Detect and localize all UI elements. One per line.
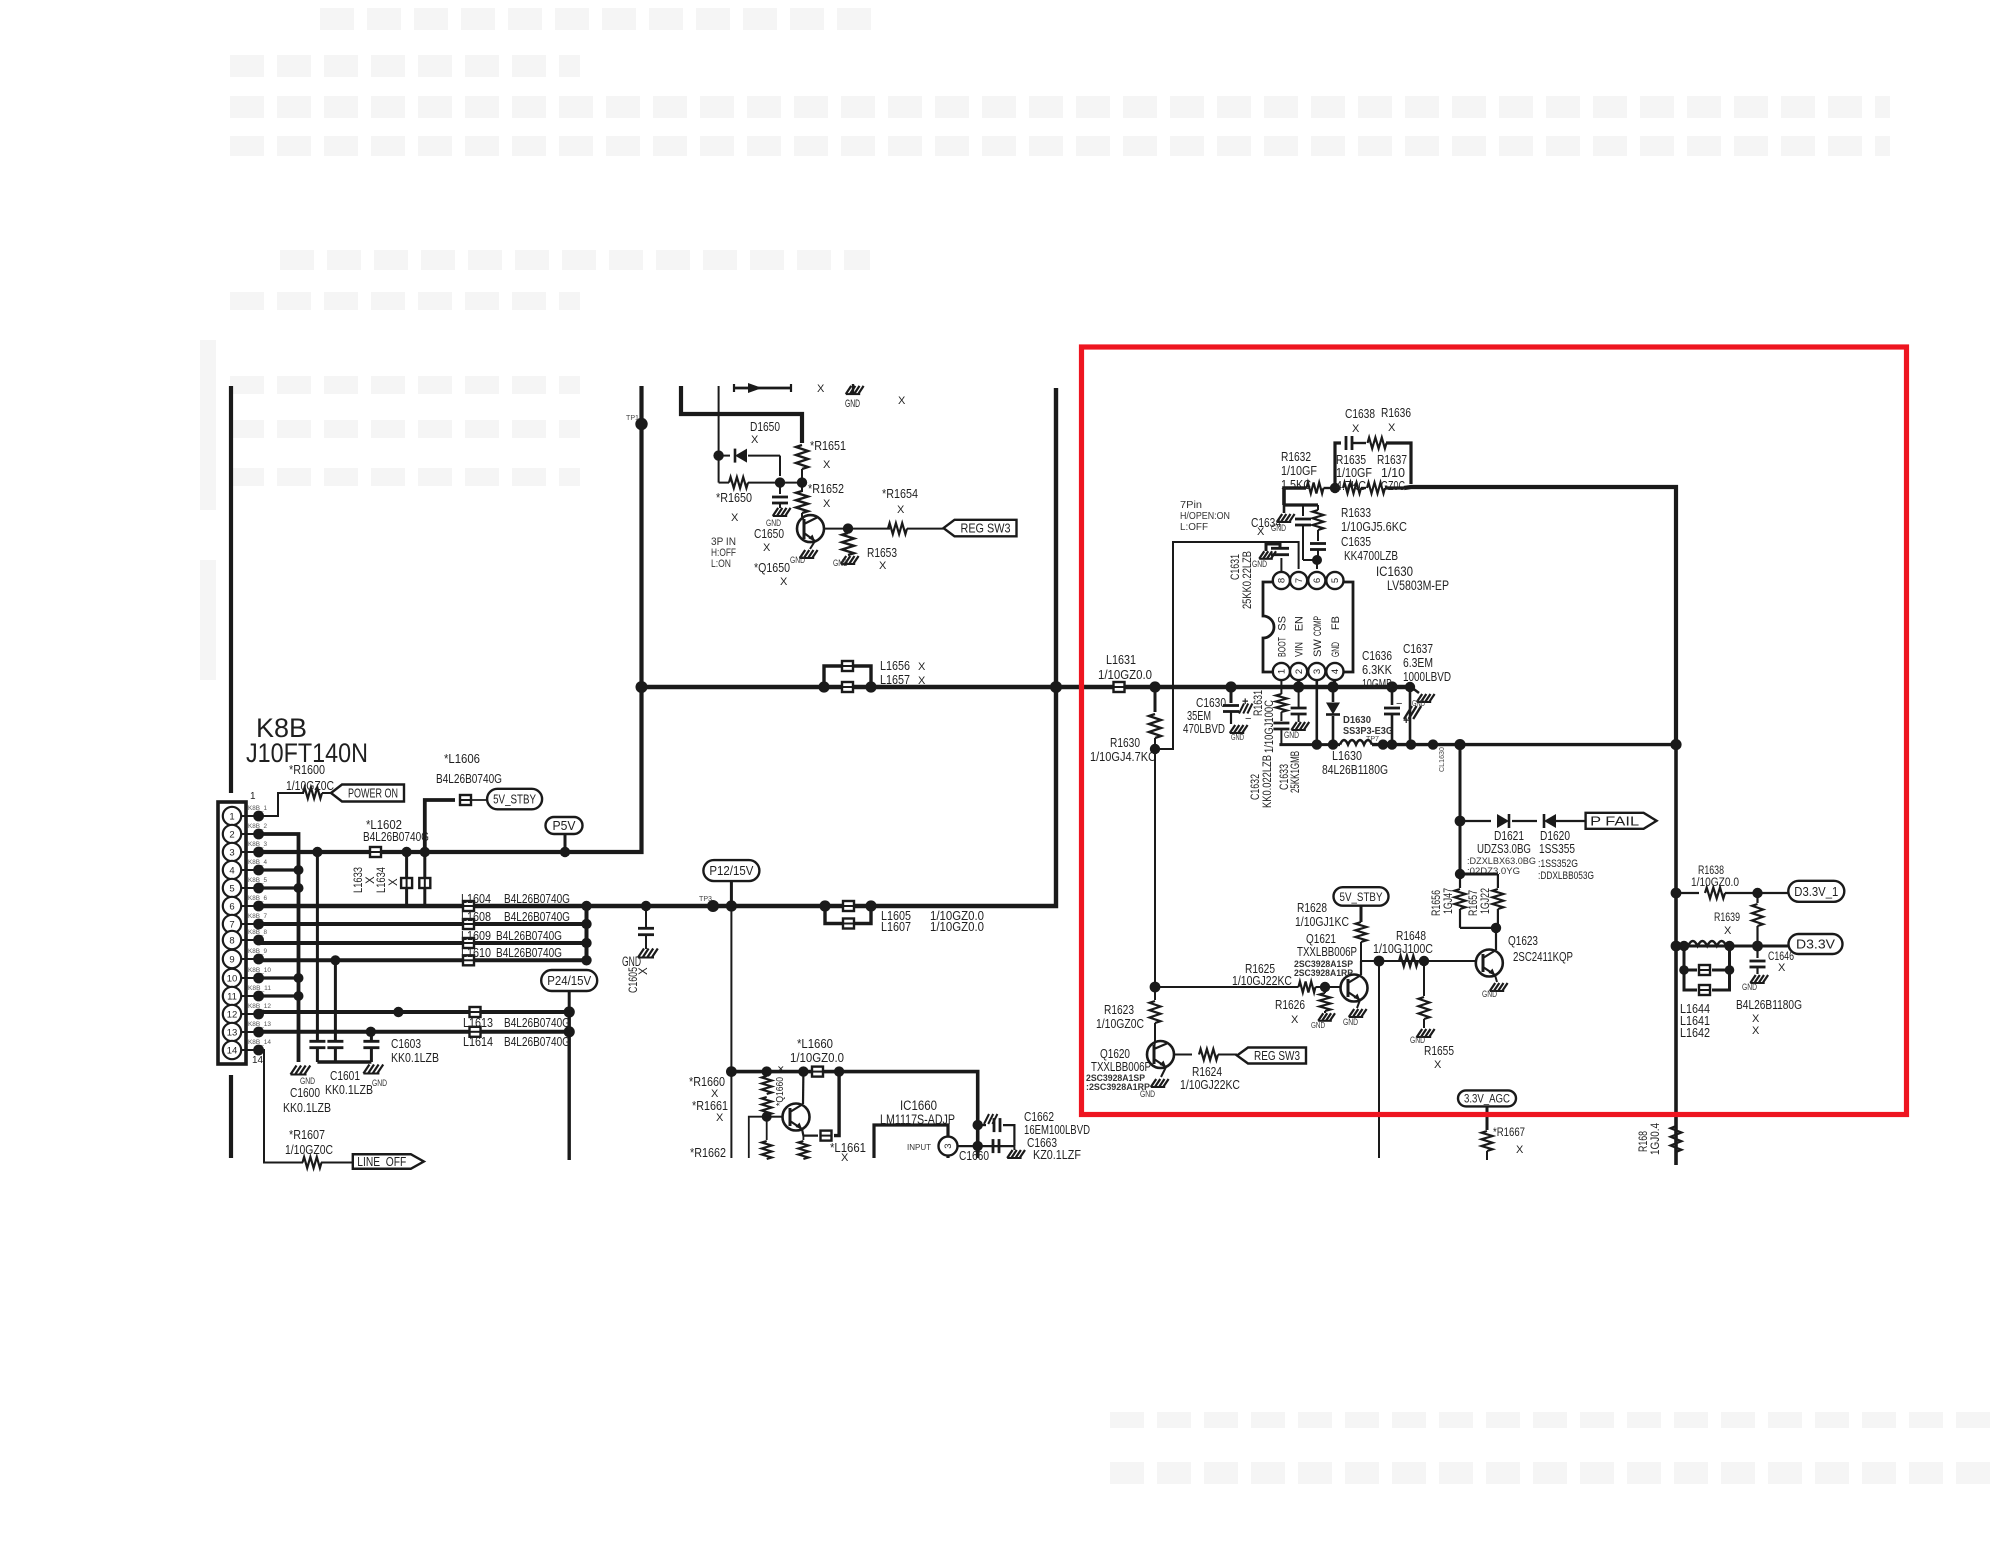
junction [1312,555,1322,565]
inductor L1605 [843,901,854,911]
wire [801,469,803,492]
inductor L1606 bead [460,795,471,805]
wire [1357,1000,1360,1008]
node REG SW3 [1237,1048,1306,1064]
svg-text:KK0.1LZB: KK0.1LZB [391,1050,439,1065]
resistor R1650 [729,477,748,488]
svg-text:X: X [1752,1025,1760,1037]
svg-text:C1635: C1635 [1341,534,1371,549]
wire [259,834,299,1062]
svg-text:C1601: C1601 [330,1068,360,1083]
svg-text:R1657: R1657 [1468,890,1480,916]
resistor R1657 [1497,874,1499,888]
svg-text:SW: SW [1312,639,1324,657]
svg-text:TP1: TP1 [626,413,639,422]
svg-text:Q1623: Q1623 [1508,933,1538,948]
ground [1318,1013,1323,1021]
pin 5 FB [1326,572,1343,589]
svg-text:R168: R168 [1638,1131,1650,1152]
wire [322,792,331,794]
wire out to right rail [1385,486,1404,489]
pin 3 INPUT [939,1137,958,1156]
resistor R1600 [303,788,322,799]
wire pin10 stub [259,976,299,979]
wire [1459,745,1462,821]
wire [321,1162,353,1164]
ground [1417,1029,1422,1037]
junction [1312,739,1322,749]
transistor Q1620 [1147,1041,1174,1068]
wire emitter loop [802,1129,818,1136]
svg-text:1/10GZ0C: 1/10GZ0C [286,778,334,793]
svg-text:L1656: L1656 [880,658,910,673]
svg-text:1GJ47: 1GJ47 [1443,888,1455,914]
svg-text:R1636: R1636 [1381,405,1411,420]
svg-text:*R1650: *R1650 [716,490,752,505]
wire [734,387,791,390]
svg-text:B4L26B0740G: B4L26B0740G [496,945,562,960]
wire [825,906,842,924]
junction [1150,982,1161,993]
wire bus5 pin12 [259,1010,570,1014]
node P FAIL [1586,813,1657,829]
svg-text:3: 3 [1312,669,1323,674]
svg-text:B4L26B0740G: B4L26B0740G [496,928,562,943]
inductor L1604 [463,901,474,911]
svg-text:B4L26B0740G: B4L26B0740G [504,1015,570,1030]
svg-text:GZ0C: GZ0C [1381,478,1405,493]
svg-text:CL1630: CL1630 [1437,747,1446,772]
svg-text:1/10GJ22KC: 1/10GJ22KC [1232,973,1292,988]
svg-text:1: 1 [229,811,234,822]
svg-text:5: 5 [229,883,234,894]
junction [312,847,322,857]
svg-text:5V_STBY: 5V_STBY [493,793,537,807]
svg-text:P24/15V: P24/15V [547,974,592,988]
svg-text:X: X [1352,423,1360,435]
wire [585,906,589,960]
resistor R1628 [1356,922,1367,942]
node POWER ON [331,785,404,802]
resistor R1662b [766,1117,768,1140]
capacitor C1662 [978,1124,986,1126]
svg-text:KK0.1LZB: KK0.1LZB [325,1082,373,1097]
svg-text:1/10GZ0.0: 1/10GZ0.0 [930,919,984,934]
ground [363,1065,369,1074]
svg-text:3: 3 [229,847,234,858]
wire [1495,975,1497,982]
wire [229,1075,233,1158]
resistor R1660 [766,1072,768,1076]
svg-text::2SC3928A1RP: :2SC3928A1RP [1086,1082,1151,1093]
svg-text:*L1606: *L1606 [444,751,480,766]
ground [1291,722,1296,730]
wire [681,386,802,443]
junction [1455,816,1466,827]
wire bus2 [259,922,587,926]
svg-text:C1632: C1632 [1250,774,1262,800]
node 3.3V_AGC [1458,1090,1516,1106]
junction [1150,744,1160,754]
wire [1316,986,1341,988]
svg-text:*R1660: *R1660 [689,1074,725,1089]
svg-text:L1604: L1604 [461,891,491,906]
svg-text:REG SW3: REG SW3 [961,522,1011,536]
junction node FB [1330,483,1340,493]
svg-text:INPUT: INPUT [907,1142,931,1152]
ground [1349,1009,1354,1017]
wire [1284,503,1318,506]
transistor Q1621 [1341,975,1368,1002]
IC IC1630 LV5803M-EP body [1263,582,1353,672]
svg-text::1SS352G: :1SS352G [1538,858,1578,870]
inductor L1602 [370,847,381,857]
junction [1752,888,1762,898]
svg-text:POWER ON: POWER ON [348,787,398,801]
svg-text:1.5KC: 1.5KC [1281,477,1311,492]
svg-text:X: X [823,459,831,471]
svg-text:X: X [879,560,887,572]
svg-text:R1632: R1632 [1281,449,1311,464]
svg-text:FB: FB [1330,616,1342,630]
svg-text:6.3KK: 6.3KK [1362,662,1392,677]
resistor R1630 [1154,687,1157,712]
svg-text:GND: GND [1231,733,1244,742]
junction [1671,888,1682,899]
wire VIN bus [642,685,1412,689]
svg-text:X: X [1752,1013,1760,1025]
svg-text:L1608: L1608 [461,909,491,924]
wire [1556,820,1586,822]
node 5V_STBY [1334,887,1389,906]
svg-text:25KK0.22LZB: 25KK0.22LZB [1242,551,1254,609]
ground [1259,551,1264,559]
junction [843,523,853,533]
wire [568,991,571,1012]
resistor R1648 [1399,956,1418,967]
svg-text:L1610: L1610 [461,945,491,960]
junction [797,477,807,487]
resistor R1655 [1423,961,1425,996]
inductor L1644 [1688,941,1726,946]
svg-text:+: + [1403,715,1409,727]
node P5V [546,817,583,834]
resistor R1633 [1317,505,1319,510]
ground [1013,1146,1015,1150]
wire [1360,942,1362,961]
svg-text:TXXLBB006P: TXXLBB006P [1091,1059,1151,1074]
inductor L1656 loop [824,666,841,687]
svg-text:1/10GZ0.0: 1/10GZ0.0 [790,1050,844,1065]
pin 7 EN [1290,572,1307,589]
wire [1372,743,1676,746]
svg-text:10: 10 [227,973,238,984]
inductor L1609 [463,938,474,948]
node P12/15V [703,860,759,881]
svg-text:5V_STBY: 5V_STBY [1340,890,1383,904]
resistor R1652 [796,491,808,513]
ground [841,556,846,564]
svg-text:GND: GND [1343,1017,1358,1027]
svg-text:R1630: R1630 [1110,735,1140,750]
node REG SW3 [944,520,1017,537]
resistor R1624 [1199,1049,1218,1060]
svg-text:1/10GF: 1/10GF [1281,463,1317,478]
svg-text:GND: GND [790,555,805,565]
wire D3.3V line [1676,945,1789,948]
svg-text:R1628: R1628 [1297,900,1327,915]
wire [810,541,815,549]
inductor L1634 [423,852,426,906]
svg-text:R1655: R1655 [1424,1043,1454,1058]
svg-text:H/OPEN:ON: H/OPEN:ON [1180,511,1230,522]
svg-text:X: X [898,395,906,407]
pin 3 SW [1308,663,1325,680]
capacitor C1637 [1409,687,1412,745]
svg-text:R1653: R1653 [867,545,897,560]
svg-text:B4L26B0740G: B4L26B0740G [504,1034,570,1049]
svg-text:X: X [817,383,825,395]
svg-text:X: X [751,434,759,446]
svg-text:2SC3928A1RP: 2SC3928A1RP [1294,968,1354,979]
inductor L1641 L1642 beads [1684,946,1697,970]
capacitor C1636 [1391,687,1394,705]
svg-text:L:ON: L:ON [711,558,731,570]
wire [1378,961,1380,1158]
svg-text:X: X [638,967,650,975]
svg-text:1: 1 [1277,669,1288,674]
capacitor C1630 [1230,687,1233,703]
svg-text:*R1667: *R1667 [1493,1127,1525,1139]
wire [1674,745,1678,1165]
wire [1486,1106,1489,1130]
node TP1 [635,418,647,430]
svg-text:IC1660: IC1660 [900,1098,937,1113]
wire bus6 pin13 [259,1030,570,1034]
ground [638,949,644,958]
svg-text:*R1652: *R1652 [808,481,844,496]
junction [819,900,830,911]
transistor Q1650 [797,515,824,542]
capacitor C1605 [645,906,647,928]
svg-text:9: 9 [229,954,234,965]
svg-text:+: + [1242,696,1248,708]
resistor R1635 [1343,483,1361,494]
junction [1455,869,1465,879]
svg-text:C1638: C1638 [1345,406,1375,421]
resistor R1653 [842,533,854,555]
wire pin4 stub [259,868,299,871]
capacitor C1634 [1302,505,1304,516]
svg-text:B4L26B0740G: B4L26B0740G [504,891,570,906]
svg-text:B4L26B0740G: B4L26B0740G [504,909,570,924]
svg-text:L1614: L1614 [463,1034,493,1049]
inductor L1614 [470,1027,481,1037]
resistor R1638 [1705,888,1725,899]
diode D1621 [1497,814,1509,828]
inductor L1633 [405,852,408,906]
svg-text:R1633: R1633 [1341,505,1371,520]
svg-text:L1634: L1634 [376,867,388,893]
wire collector line [824,528,890,530]
svg-text:P5V: P5V [553,819,577,833]
svg-text:4.7KC: 4.7KC [1336,478,1366,493]
wire [1361,487,1366,489]
connector K8B J10FT140N [218,802,246,1064]
inductor L1610 [463,955,474,965]
svg-text:KK4700LZB: KK4700LZB [1344,548,1398,563]
svg-text:C1603: C1603 [391,1036,421,1051]
resistor R1663 [802,1136,804,1140]
svg-text:L1633: L1633 [353,867,365,893]
svg-text:14: 14 [227,1045,238,1056]
svg-text:6: 6 [229,901,234,912]
svg-text:1/10GZ0.0: 1/10GZ0.0 [1691,877,1739,889]
junction [726,1066,737,1077]
wire [229,386,233,793]
wire bus3 [259,941,587,945]
svg-text:X: X [763,542,771,554]
wire SW pin [1316,680,1319,745]
inductor L1631 [1114,682,1125,692]
svg-text:3.3V_AGC: 3.3V_AGC [1464,1094,1510,1106]
svg-text:X: X [1434,1059,1442,1071]
wire top loop [1335,443,1341,488]
wire [731,1072,977,1158]
wire [718,386,720,456]
svg-text:B4L26B0740G: B4L26B0740G [363,829,429,844]
wire [564,834,567,852]
wire [1161,1067,1166,1077]
svg-text:GND: GND [372,1078,387,1088]
wire [958,1145,1015,1147]
resistor R1636 [1368,438,1387,449]
ground [1750,975,1755,983]
svg-text:*R1651: *R1651 [810,438,846,453]
svg-text:14: 14 [252,1055,264,1066]
svg-text:GND: GND [1742,982,1757,992]
wire [317,1060,371,1063]
svg-text:*Q1650: *Q1650 [754,560,790,575]
resistor R1637 [1367,483,1385,494]
resistor R1651 [796,445,808,469]
junction [641,901,651,911]
svg-text:10GMB: 10GMB [1362,676,1392,691]
svg-text:R1626: R1626 [1275,997,1305,1012]
wire pin11 stub [259,994,299,997]
svg-text:D3.3V: D3.3V [1796,938,1836,952]
node TP3 [707,900,719,912]
svg-text:*R1662: *R1662 [690,1145,726,1160]
pin 4 GND [1326,663,1343,680]
svg-text:D3.3V_1: D3.3V_1 [1794,885,1838,899]
svg-text:L1607: L1607 [881,919,911,934]
wire BOOT branch [1280,680,1282,694]
inductor L1613 [470,1007,481,1017]
svg-text:GND: GND [1482,989,1497,999]
inductor L1608 [463,919,474,929]
svg-text:L:OFF: L:OFF [1180,522,1208,533]
svg-text:3: 3 [943,1143,954,1148]
wire [1324,487,1336,489]
svg-text:−: − [1396,698,1402,710]
ground [1283,505,1286,513]
wire [749,1117,767,1158]
svg-text:7: 7 [229,919,234,930]
svg-text:*L1660: *L1660 [797,1036,833,1051]
junction [1149,681,1160,692]
svg-text:GND: GND [1311,1020,1325,1030]
svg-text:R1623: R1623 [1104,1002,1134,1017]
junction [581,901,591,911]
node D3.3V [1789,934,1843,954]
wire [1155,986,1299,988]
svg-text:X: X [716,1112,724,1124]
svg-text:1000LBVD: 1000LBVD [1403,669,1451,684]
wire [730,881,733,906]
ground [1411,687,1419,693]
wire [834,1072,839,1136]
svg-text:7: 7 [1294,578,1305,583]
svg-text:L1609: L1609 [461,928,491,943]
svg-text:GND: GND [1330,642,1342,657]
resistor R1639 [1756,893,1758,903]
pin 8 SS [1273,572,1290,589]
svg-text:8: 8 [1277,578,1288,583]
svg-text:X: X [918,661,926,673]
ground [1490,983,1495,991]
resistor R1631 [1276,694,1287,712]
svg-text:LM1117S-ADJP: LM1117S-ADJP [880,1112,955,1127]
wire [907,528,944,530]
wire [1218,1054,1237,1056]
svg-text:1SS355: 1SS355 [1539,841,1575,856]
capacitor C1631 [1280,558,1282,572]
ground [1151,1079,1156,1087]
svg-text:470LBVD: 470LBVD [1183,721,1225,736]
wire [730,1072,732,1158]
resistor R1685 [1671,1126,1682,1152]
svg-text:D1650: D1650 [750,419,780,434]
node 5V_STBY [487,789,542,810]
wire R1632 rail [1284,488,1306,505]
wire [1316,560,1318,569]
svg-text:C1600: C1600 [290,1085,320,1100]
svg-text:4: 4 [1330,669,1341,674]
svg-text:*R1607: *R1607 [289,1127,325,1142]
svg-text:X: X [897,504,905,516]
svg-text:*Q1660: *Q1660 [774,1077,786,1106]
svg-text:X: X [1291,1014,1299,1026]
svg-text:P FAIL: P FAIL [1590,814,1639,828]
svg-text::DDXLBB053G: :DDXLBB053G [1538,870,1594,882]
node D3.3V_1 [1788,881,1844,902]
svg-text:2SC2411KQP: 2SC2411KQP [1513,949,1573,964]
svg-text:4: 4 [229,865,234,876]
resistor R1667 [1482,1131,1493,1151]
resistor R1626 [1324,987,1326,993]
svg-text:C1660: C1660 [959,1148,989,1163]
svg-text:KZ0.1LZF: KZ0.1LZF [1033,1147,1081,1162]
svg-text:P12/15V: P12/15V [709,864,754,878]
wire [1460,927,1498,929]
wire [748,482,802,484]
junction [973,1141,983,1151]
svg-text:84L26B1180G: 84L26B1180G [1322,762,1388,777]
svg-text:1/10GJ100C: 1/10GJ100C [1264,700,1276,753]
resistor R1625 [1299,982,1316,993]
svg-text:GND: GND [622,954,641,969]
